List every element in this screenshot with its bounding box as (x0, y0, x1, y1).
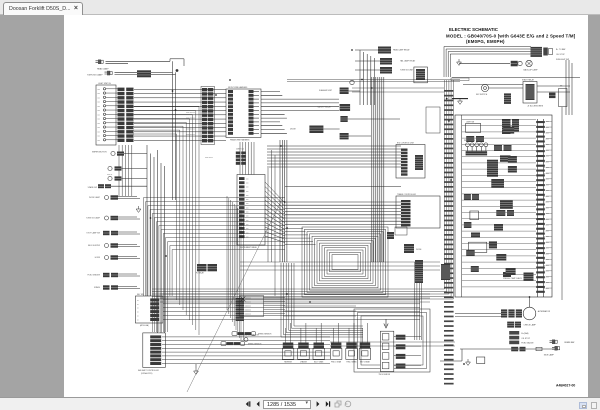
svg-text:FLASHER UNIT: FLASHER UNIT (319, 89, 333, 92)
svg-text:xxxx xxxx xx: xxxx xxxx xx (186, 123, 195, 125)
svg-text:xx: xx (137, 316, 139, 318)
svg-text:xxx: xxx (246, 182, 249, 184)
svg-text:CHARGE: CHARGE (300, 361, 307, 364)
svg-text:TRANS CONTROLLER: TRANS CONTROLLER (397, 193, 417, 196)
svg-text:HEAD LAMP RELAY: HEAD LAMP RELAY (393, 49, 410, 52)
svg-text:ALTERNATOR: ALTERNATOR (538, 310, 551, 313)
svg-text:B+(30A): B+(30A) (521, 332, 528, 335)
svg-text:SAFETY RELAY: SAFETY RELAY (318, 106, 332, 109)
svg-text:FUEL SENDER: FUEL SENDER (87, 275, 100, 277)
svg-text:xx: xx (137, 300, 139, 302)
svg-text:TURN SIG LAMP: TURN SIG LAMP (87, 74, 103, 77)
svg-text:xxx: xxx (246, 191, 249, 193)
svg-text:xxx: xxx (98, 110, 101, 112)
svg-text:FUEL GAUGE: FUEL GAUGE (521, 342, 534, 345)
svg-text:xxx: xxx (246, 195, 249, 197)
svg-text:JOINT CN: JOINT CN (236, 149, 245, 151)
svg-text:WIPER MOTOR: WIPER MOTOR (92, 152, 107, 154)
svg-text:xxxx xxxxxxx: xxxx xxxxxxx (241, 314, 251, 316)
svg-text:DIODE: DIODE (290, 129, 296, 131)
svg-text:TAIL LAMP RELAY: TAIL LAMP RELAY (400, 60, 416, 63)
svg-text:(24V5A-XXXX): (24V5A-XXXX) (141, 372, 153, 375)
svg-text:DIODE: DIODE (416, 249, 422, 251)
svg-text:xxxx xxxxxxx: xxxx xxxxxxx (241, 306, 251, 308)
svg-text:INSTRUMENT PANEL: INSTRUMENT PANEL (240, 246, 257, 249)
svg-text:KHB SHIFT CONTROLLER: KHB SHIFT CONTROLLER (138, 370, 160, 372)
svg-text:REV 2 GEAR: REV 2 GEAR (360, 361, 370, 364)
svg-text:xxx: xxx (246, 212, 249, 214)
svg-text:xxx: xxx (98, 89, 101, 91)
svg-text:BZ1 T GEAR: BZ1 T GEAR (314, 361, 324, 364)
svg-text:xxx: xxx (246, 187, 249, 189)
svg-text:xxx: xxx (98, 97, 101, 99)
svg-text:LIGHT SWITCH: LIGHT SWITCH (98, 83, 112, 85)
svg-text:TM SOLENOID: TM SOLENOID (379, 374, 391, 376)
svg-text:xx: xx (137, 312, 139, 314)
svg-text:xxx: xxx (98, 123, 101, 125)
svg-text:xxx: xxx (98, 93, 101, 95)
svg-text:xxxx xxxx xx: xxxx xxxx xx (186, 129, 195, 131)
svg-text:xxx: xxx (98, 140, 101, 142)
svg-text:xxxx xxxxx: xxxx xxxxx (205, 157, 213, 159)
svg-text:WORK LAMP: WORK LAMP (89, 196, 101, 199)
svg-text:xxx: xxx (246, 207, 249, 209)
svg-text:(AT24-L6A): (AT24-L6A) (140, 324, 149, 327)
svg-text:E/G CONTROL UNIT: E/G CONTROL UNIT (397, 143, 415, 145)
svg-text:OIL STOP: OIL STOP (556, 54, 565, 56)
svg-text:xxx: xxx (98, 119, 101, 121)
svg-text:SPARE SW: SPARE SW (88, 186, 98, 189)
svg-text:xxxx xxxx xx: xxxx xxxx xx (186, 134, 195, 136)
svg-text:FL RELAY: FL RELAY (196, 272, 205, 275)
svg-text:SPARE CONNECTOR: SPARE CONNECTOR (242, 334, 260, 337)
svg-text:TURN SIG UNIT: TURN SIG UNIT (400, 70, 414, 72)
svg-text:xxx: xxx (98, 102, 101, 104)
svg-text:SPARE BAT: SPARE BAT (564, 341, 575, 344)
svg-text:xxx: xxx (246, 199, 249, 201)
svg-text:SUNLIGHT SW: SUNLIGHT SW (556, 59, 569, 61)
svg-text:FRONT WIRE HARNESS: FRONT WIRE HARNESS (228, 86, 248, 89)
svg-text:KEY SWITCH: KEY SWITCH (476, 94, 488, 96)
svg-text:A4B4027-00: A4B4027-00 (556, 384, 575, 388)
svg-text:xxxx xxxxxxx: xxxx xxxxxxx (241, 310, 251, 312)
svg-text:FRAME WIRE HARNESS: FRAME WIRE HARNESS (230, 139, 250, 142)
svg-text:xxxx xxxx xx: xxxx xxxx xx (186, 112, 195, 114)
svg-text:TURN SIG LAMP: TURN SIG LAMP (86, 217, 101, 220)
svg-text:SIDE LAMP: SIDE LAMP (544, 353, 555, 356)
svg-text:SPARE: SPARE (94, 286, 101, 289)
svg-text:SPEED SENSOR: SPEED SENSOR (258, 334, 272, 336)
svg-text:(EM0PG, EM0PH): (EM0PG, EM0PH) (466, 39, 505, 44)
svg-text:BACK-UP LAMP: BACK-UP LAMP (524, 69, 539, 72)
svg-text:xxx: xxx (246, 232, 249, 234)
svg-text:PRESS & TEMP CHECK: PRESS & TEMP CHECK (503, 278, 523, 280)
svg-text:xxx: xxx (98, 106, 101, 108)
svg-text:KEY SW: KEY SW (137, 294, 144, 296)
svg-text:LIGHT SW: LIGHT SW (466, 121, 475, 123)
svg-text:SPEED SENSOR: SPEED SENSOR (248, 344, 262, 346)
svg-text:CHECK LAMP: CHECK LAMP (524, 324, 537, 327)
svg-text:xx: xx (137, 304, 139, 306)
svg-text:A : ACCESSORIES: A : ACCESSORIES (528, 105, 544, 108)
svg-text:xxxx xx: xxxx xx (107, 174, 112, 176)
svg-text:MODEL : GB040/70S-0 [with G643: MODEL : GB040/70S-0 [with G643E E/G and … (446, 34, 576, 39)
svg-text:xxx: xxx (98, 114, 101, 116)
svg-text:FWD 1 GEAR: FWD 1 GEAR (331, 361, 342, 364)
svg-text:xxx: xxx (98, 136, 101, 138)
svg-text:B+ TO BAT: B+ TO BAT (556, 48, 566, 51)
svg-text:HORN: HORN (95, 257, 101, 259)
svg-text:xxx: xxx (98, 127, 101, 129)
svg-text:SELF BUZZER: SELF BUZZER (88, 245, 101, 247)
svg-text:START RELAY: START RELAY (522, 79, 535, 82)
svg-text:STOP LAMP SW: STOP LAMP SW (86, 232, 100, 235)
svg-text:xx: xx (137, 319, 139, 321)
svg-text:xxx: xxx (246, 178, 249, 180)
svg-text:HEAD LAMP: HEAD LAMP (97, 68, 109, 71)
svg-text:REVERSE: REVERSE (284, 362, 292, 364)
svg-text:xxx: xxx (246, 203, 249, 205)
svg-text:FWD 2 GEAR: FWD 2 GEAR (347, 361, 358, 364)
svg-text:xxx: xxx (246, 228, 249, 230)
svg-text:OIL STOP: OIL STOP (521, 338, 530, 340)
svg-text:ELECTRIC SCHEMATIC: ELECTRIC SCHEMATIC (449, 27, 499, 32)
svg-text:xxx: xxx (98, 131, 101, 133)
svg-text:xx: xx (137, 308, 139, 310)
